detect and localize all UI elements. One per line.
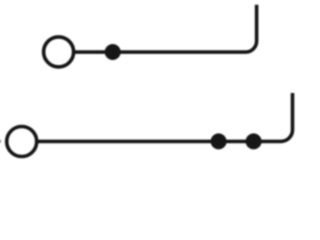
wire (top row: from terminal to right, bending up): [73, 5, 257, 52]
terminal circle P2 (bottom row, open clamp terminal): [7, 127, 37, 157]
wire (bottom row: from terminal to right, bending up): [36, 93, 292, 141]
junction dot (top row): [105, 44, 121, 60]
wire stub (bottom row, left edge): [0, 140, 1, 143]
terminal circle P1 (top row, open clamp terminal): [44, 37, 74, 67]
junction dot B (bottom row): [246, 133, 262, 149]
junction dot A (bottom row): [211, 133, 227, 149]
